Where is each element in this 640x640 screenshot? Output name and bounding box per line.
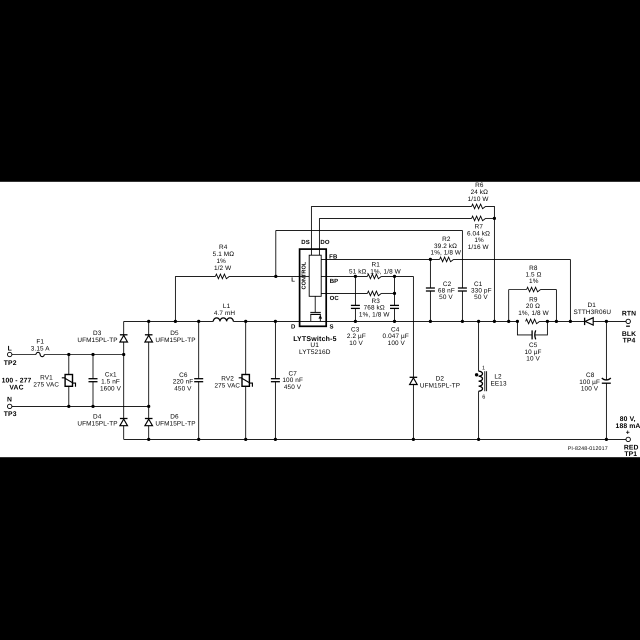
svg-text:EE13: EE13 xyxy=(491,380,507,387)
transistor channel bar xyxy=(310,313,321,315)
svg-text:100 V: 100 V xyxy=(581,386,599,393)
wire C2 top xyxy=(429,259,431,288)
label 100-277 VAC xyxy=(2,378,32,392)
node rail-RV2 xyxy=(244,320,247,323)
wire D5 column xyxy=(148,321,150,334)
svg-text:D5: D5 xyxy=(170,330,179,337)
terminal TP1 RED xyxy=(626,437,630,441)
svg-text:450 V: 450 V xyxy=(284,384,302,391)
wire L to fuse xyxy=(12,354,36,356)
label pin L xyxy=(291,277,295,284)
svg-text:DS: DS xyxy=(301,239,310,246)
wire D3 to L line xyxy=(123,342,125,355)
wire L pin into block xyxy=(300,275,310,277)
node rail-R8L xyxy=(507,320,510,323)
node rail-C8 xyxy=(605,320,608,323)
wire R8 left stub xyxy=(508,290,510,322)
resistor R4 xyxy=(215,274,229,279)
label D3 xyxy=(77,330,117,344)
diode D5 xyxy=(145,335,153,342)
resistor R8 xyxy=(527,287,541,292)
capacitor C5 xyxy=(532,330,536,339)
svg-text:BP: BP xyxy=(330,278,339,285)
diode D4 xyxy=(120,419,128,426)
node L-bridge xyxy=(122,353,125,356)
svg-text:R4: R4 xyxy=(219,244,228,251)
wire D2 bottom xyxy=(412,385,414,440)
terminal TP4 RTN xyxy=(626,319,630,323)
svg-text:+: + xyxy=(626,430,630,437)
node rail-D5 xyxy=(147,320,150,323)
wire C5 left stub xyxy=(517,321,531,335)
label R3 xyxy=(359,298,390,319)
node bot-RV2 xyxy=(244,438,247,441)
svg-text:1: 1 xyxy=(482,365,485,371)
wire RV2 bottom xyxy=(245,386,247,439)
wire C2 bottom xyxy=(429,291,431,321)
node rail-C6 xyxy=(197,320,200,323)
svg-text:TP4: TP4 xyxy=(623,338,636,345)
U1 inner control block xyxy=(309,255,321,296)
wire bottom rail xyxy=(124,438,626,440)
svg-text:L: L xyxy=(8,346,12,353)
label TP3 xyxy=(4,411,17,418)
diode D2 xyxy=(410,377,418,384)
wire R7 right xyxy=(486,217,495,219)
svg-text:DO: DO xyxy=(320,239,329,246)
capacitor C4 xyxy=(390,305,399,308)
wire D6 to bottom rail xyxy=(148,426,150,440)
minus sign xyxy=(626,325,630,327)
svg-text:UFM15PL-TP: UFM15PL-TP xyxy=(420,382,460,389)
svg-text:UFM15PL-TP: UFM15PL-TP xyxy=(77,337,117,344)
svg-text:6: 6 xyxy=(482,394,485,400)
wire DO horizontal xyxy=(319,217,471,219)
capacitor C2 xyxy=(426,288,435,291)
label R4 xyxy=(213,244,235,272)
svg-text:TP2: TP2 xyxy=(4,360,17,367)
label CONTROL xyxy=(302,261,308,289)
node rail-C2 xyxy=(429,320,432,323)
wire C4 top xyxy=(394,276,396,305)
svg-text:STTH3R06U: STTH3R06U xyxy=(573,309,611,316)
svg-text:F1: F1 xyxy=(36,339,44,346)
fuse F1 xyxy=(36,352,44,356)
wire Cx1 bottom xyxy=(92,382,94,407)
svg-text:100 - 277: 100 - 277 xyxy=(2,378,32,385)
label RED TP1 xyxy=(624,445,639,458)
wire C1 bottom xyxy=(461,291,463,321)
label R8 xyxy=(525,265,541,285)
label LYTSwitch-5 xyxy=(293,335,337,343)
node bot-C7 xyxy=(274,438,277,441)
svg-text:UFM15PL-TP: UFM15PL-TP xyxy=(77,420,117,427)
node rail-C3 xyxy=(354,320,357,323)
node N-bridge xyxy=(147,405,150,408)
node rail-C5R xyxy=(546,320,549,323)
wire R8 left horiz xyxy=(509,289,527,291)
node rail-C5L xyxy=(516,320,519,323)
label pin D xyxy=(291,324,296,331)
label D2 xyxy=(420,375,460,389)
wire C4 bottom xyxy=(394,308,396,321)
label C7 xyxy=(282,371,303,391)
wire FB from box xyxy=(321,258,439,260)
wire D-S through box xyxy=(300,320,327,322)
wire L1 to U1 D pin xyxy=(233,320,299,322)
wire C6 bottom xyxy=(198,382,200,440)
svg-text:1%, 1/8 W: 1%, 1/8 W xyxy=(359,311,390,318)
svg-text:R6: R6 xyxy=(475,182,484,189)
svg-text:Cx1: Cx1 xyxy=(105,372,117,379)
svg-text:1%, 1/8 W: 1%, 1/8 W xyxy=(518,310,549,317)
wire Cx1 top xyxy=(92,355,94,379)
node R1-C4 xyxy=(393,275,396,278)
label RV1 xyxy=(33,375,59,389)
label pin FB xyxy=(329,254,338,261)
capacitor C8 xyxy=(602,378,611,383)
label C1 xyxy=(471,281,492,301)
label C6 xyxy=(173,372,194,392)
svg-text:D6: D6 xyxy=(170,413,179,420)
capacitor C3 xyxy=(351,305,360,308)
wire R8 right horiz xyxy=(541,289,557,291)
capacitor Cx1 xyxy=(89,379,98,382)
svg-text:L2: L2 xyxy=(494,373,502,380)
svg-text:1600 V: 1600 V xyxy=(100,386,122,393)
node rail-R8R xyxy=(555,320,558,323)
varistor RV1 xyxy=(62,375,76,387)
wire R3 right xyxy=(381,292,394,294)
svg-text:3.15 A: 3.15 A xyxy=(31,346,50,353)
wire D5 to N line xyxy=(148,342,150,406)
node N-RV1 xyxy=(67,405,70,408)
node rail-C1 xyxy=(461,320,464,323)
wire R4 vertical xyxy=(174,276,176,321)
wire R1 right xyxy=(381,275,413,277)
wire C7 top xyxy=(274,321,276,378)
svg-text:10 V: 10 V xyxy=(526,356,540,363)
svg-text:1/16 W: 1/16 W xyxy=(468,244,490,251)
node bot-L2 xyxy=(477,438,480,441)
wire R2 to FB corner xyxy=(454,258,571,260)
label D5 xyxy=(155,330,195,344)
transistor gate bar xyxy=(310,311,321,313)
wire C3 bottom xyxy=(354,308,356,321)
svg-text:TP1: TP1 xyxy=(624,451,637,458)
node L-pin junction xyxy=(274,275,277,278)
svg-text:CONTROL: CONTROL xyxy=(302,261,308,289)
node N-Cx1 xyxy=(91,405,94,408)
node rail-FB xyxy=(569,320,572,323)
capacitor C1 xyxy=(458,288,467,291)
resistor R9 xyxy=(526,319,540,324)
svg-text:1/2 W: 1/2 W xyxy=(214,265,232,272)
wire fuse to D3 node xyxy=(44,354,123,356)
svg-text:D3: D3 xyxy=(93,330,102,337)
svg-text:S: S xyxy=(330,324,334,331)
wire C7 bottom xyxy=(274,382,276,440)
node rail-R67 xyxy=(493,320,496,323)
label R1 xyxy=(349,262,402,276)
svg-text:50 V: 50 V xyxy=(474,294,488,301)
wire R9 right xyxy=(540,320,585,322)
label RV2 xyxy=(215,376,241,390)
label C5 xyxy=(524,342,541,363)
node L-Cx1 xyxy=(91,353,94,356)
svg-text:D2: D2 xyxy=(436,375,445,382)
wire L2 top xyxy=(478,321,480,371)
svg-text:PI-8248-012017: PI-8248-012017 xyxy=(568,446,608,452)
label Cx1 xyxy=(100,372,122,393)
inductor L2 xyxy=(479,371,483,391)
capacitor C7 xyxy=(271,379,280,382)
svg-text:D1: D1 xyxy=(587,302,596,309)
label R2 xyxy=(431,236,462,257)
label R7 xyxy=(467,224,490,251)
varistor RV2 xyxy=(239,375,253,387)
node bot-D6 xyxy=(147,438,150,441)
svg-text:1/10 W: 1/10 W xyxy=(468,196,490,203)
svg-text:RTN: RTN xyxy=(622,311,636,318)
svg-text:275 VAC: 275 VAC xyxy=(33,382,59,389)
svg-text:LYT5216D: LYT5216D xyxy=(299,349,331,356)
wire C8 top xyxy=(605,321,607,379)
wire BP from box xyxy=(321,275,367,277)
wire rail D3 to L1 xyxy=(124,320,214,322)
wire R6 to corner xyxy=(486,206,495,218)
wire D2 drop xyxy=(412,276,414,377)
node rail-L2 xyxy=(477,320,480,323)
svg-text:10 V: 10 V xyxy=(349,340,363,347)
transistor right stub xyxy=(319,314,321,321)
label BLK TP4 xyxy=(622,331,636,345)
L2 core bars xyxy=(485,371,487,391)
white schematic band xyxy=(0,182,640,457)
wire RV2 top xyxy=(245,321,247,374)
label D1 xyxy=(573,302,611,316)
svg-text:D: D xyxy=(291,324,296,331)
wire C6 top xyxy=(198,321,200,378)
resistor R6 xyxy=(472,204,486,209)
label D6 xyxy=(155,413,195,427)
label TP2 xyxy=(4,360,17,367)
label U1 xyxy=(310,342,319,349)
wire Lpin node up xyxy=(275,230,277,276)
label D4 xyxy=(77,413,117,427)
wire L-net horizontal xyxy=(276,229,463,231)
svg-text:UFM15PL-TP: UFM15PL-TP xyxy=(155,337,195,344)
node R6-R7 xyxy=(493,217,496,220)
label C4 xyxy=(383,327,409,347)
label C3 xyxy=(347,327,366,347)
label L2 pin 1 xyxy=(482,365,485,371)
resistor R1 xyxy=(367,274,381,279)
wire D1 to RTN xyxy=(593,320,626,322)
node bot-D2 xyxy=(412,438,415,441)
IC U1 box xyxy=(300,249,327,326)
node rail-C4 xyxy=(393,320,396,323)
label PI-8248-012017 xyxy=(568,446,608,452)
wire L-net down to C1 xyxy=(461,230,463,288)
svg-text:L: L xyxy=(291,277,295,284)
inductor L1 xyxy=(213,318,233,322)
label C8 xyxy=(579,372,600,393)
L2 phasing dot xyxy=(475,373,478,376)
resistor R7 xyxy=(472,216,486,221)
wire D3 column xyxy=(123,321,125,334)
wire R4 right to L pin node xyxy=(229,275,299,277)
terminal TP2 (L input) xyxy=(8,352,12,356)
label F1 xyxy=(31,339,50,353)
wire L2 bottom xyxy=(478,391,480,439)
node rail-R4 xyxy=(174,320,177,323)
diode D3 xyxy=(120,335,128,342)
node bot-C6 xyxy=(197,438,200,441)
label C2 xyxy=(438,281,455,301)
label L2 xyxy=(491,373,507,387)
svg-text:275 VAC: 275 VAC xyxy=(215,382,241,389)
label pin S xyxy=(330,324,334,331)
label R6 xyxy=(468,182,490,203)
resistor R3 xyxy=(367,291,381,296)
wire C3 top xyxy=(354,276,356,305)
svg-text:50 V: 50 V xyxy=(439,294,453,301)
node BP-C3 xyxy=(354,275,357,278)
svg-text:RV1: RV1 xyxy=(40,375,53,382)
label pin DO xyxy=(320,239,329,246)
wire S rail xyxy=(326,320,517,322)
wire C5 right stub xyxy=(535,321,547,335)
svg-text:D4: D4 xyxy=(93,413,102,420)
svg-text:450 V: 450 V xyxy=(174,385,192,392)
label RTN xyxy=(622,311,636,318)
wire DS vertical xyxy=(310,206,312,255)
wire R67 vertical to rail xyxy=(493,218,495,321)
transistor left stub xyxy=(310,314,312,321)
svg-text:N: N xyxy=(7,397,12,404)
node L-RV1 xyxy=(67,353,70,356)
wire D4 to bottom rail xyxy=(123,426,125,440)
wire DS horizontal xyxy=(311,205,471,207)
node rail-C7 xyxy=(274,320,277,323)
label LYT5216D xyxy=(299,349,331,356)
label pin OC xyxy=(330,295,340,302)
label N xyxy=(7,397,12,404)
svg-text:100 V: 100 V xyxy=(388,340,406,347)
label L xyxy=(8,346,12,353)
label L1 xyxy=(214,303,236,317)
transistor gate wire xyxy=(314,296,316,312)
label R9 xyxy=(518,297,549,317)
svg-text:1%, 1/8 W: 1%, 1/8 W xyxy=(431,250,462,257)
wire N line xyxy=(12,405,149,407)
wire FB corner down xyxy=(569,259,571,321)
transistor arrow xyxy=(319,315,323,319)
wire RV1 bottom xyxy=(68,386,70,406)
svg-text:OC: OC xyxy=(330,295,340,302)
label pin DS xyxy=(301,239,310,246)
label pin BP xyxy=(330,278,339,285)
svg-text:1%: 1% xyxy=(529,278,539,285)
svg-text:1.5 nF: 1.5 nF xyxy=(101,379,120,386)
svg-text:UFM15PL-TP: UFM15PL-TP xyxy=(155,420,195,427)
wire R4 left xyxy=(175,275,215,277)
svg-text:51 kΩ, 1%, 1/8 W: 51 kΩ, 1%, 1/8 W xyxy=(349,268,402,275)
wire N line to D6 xyxy=(148,406,150,418)
svg-text:TP3: TP3 xyxy=(4,411,17,418)
wire L line to D4 xyxy=(123,355,125,419)
node FB-C2 xyxy=(429,258,432,261)
svg-text:VAC: VAC xyxy=(9,385,23,392)
wire OC from box xyxy=(321,292,367,294)
svg-text:4.7 mH: 4.7 mH xyxy=(214,310,236,317)
wire RV1 top xyxy=(68,355,70,375)
terminal TP3 (N input) xyxy=(8,404,12,408)
wire R8 right stub xyxy=(555,290,557,322)
diode D6 xyxy=(145,419,153,426)
diode D1 xyxy=(585,318,594,325)
resistor R2 xyxy=(440,257,454,262)
wire C8 bottom xyxy=(605,383,607,439)
capacitor C6 xyxy=(194,379,203,382)
node OC-C4 xyxy=(393,292,396,295)
label L2 pin 6 xyxy=(482,394,485,400)
label 80V 188mA xyxy=(616,416,640,437)
wire DO vertical xyxy=(318,218,320,255)
node bot-C8 xyxy=(605,438,608,441)
